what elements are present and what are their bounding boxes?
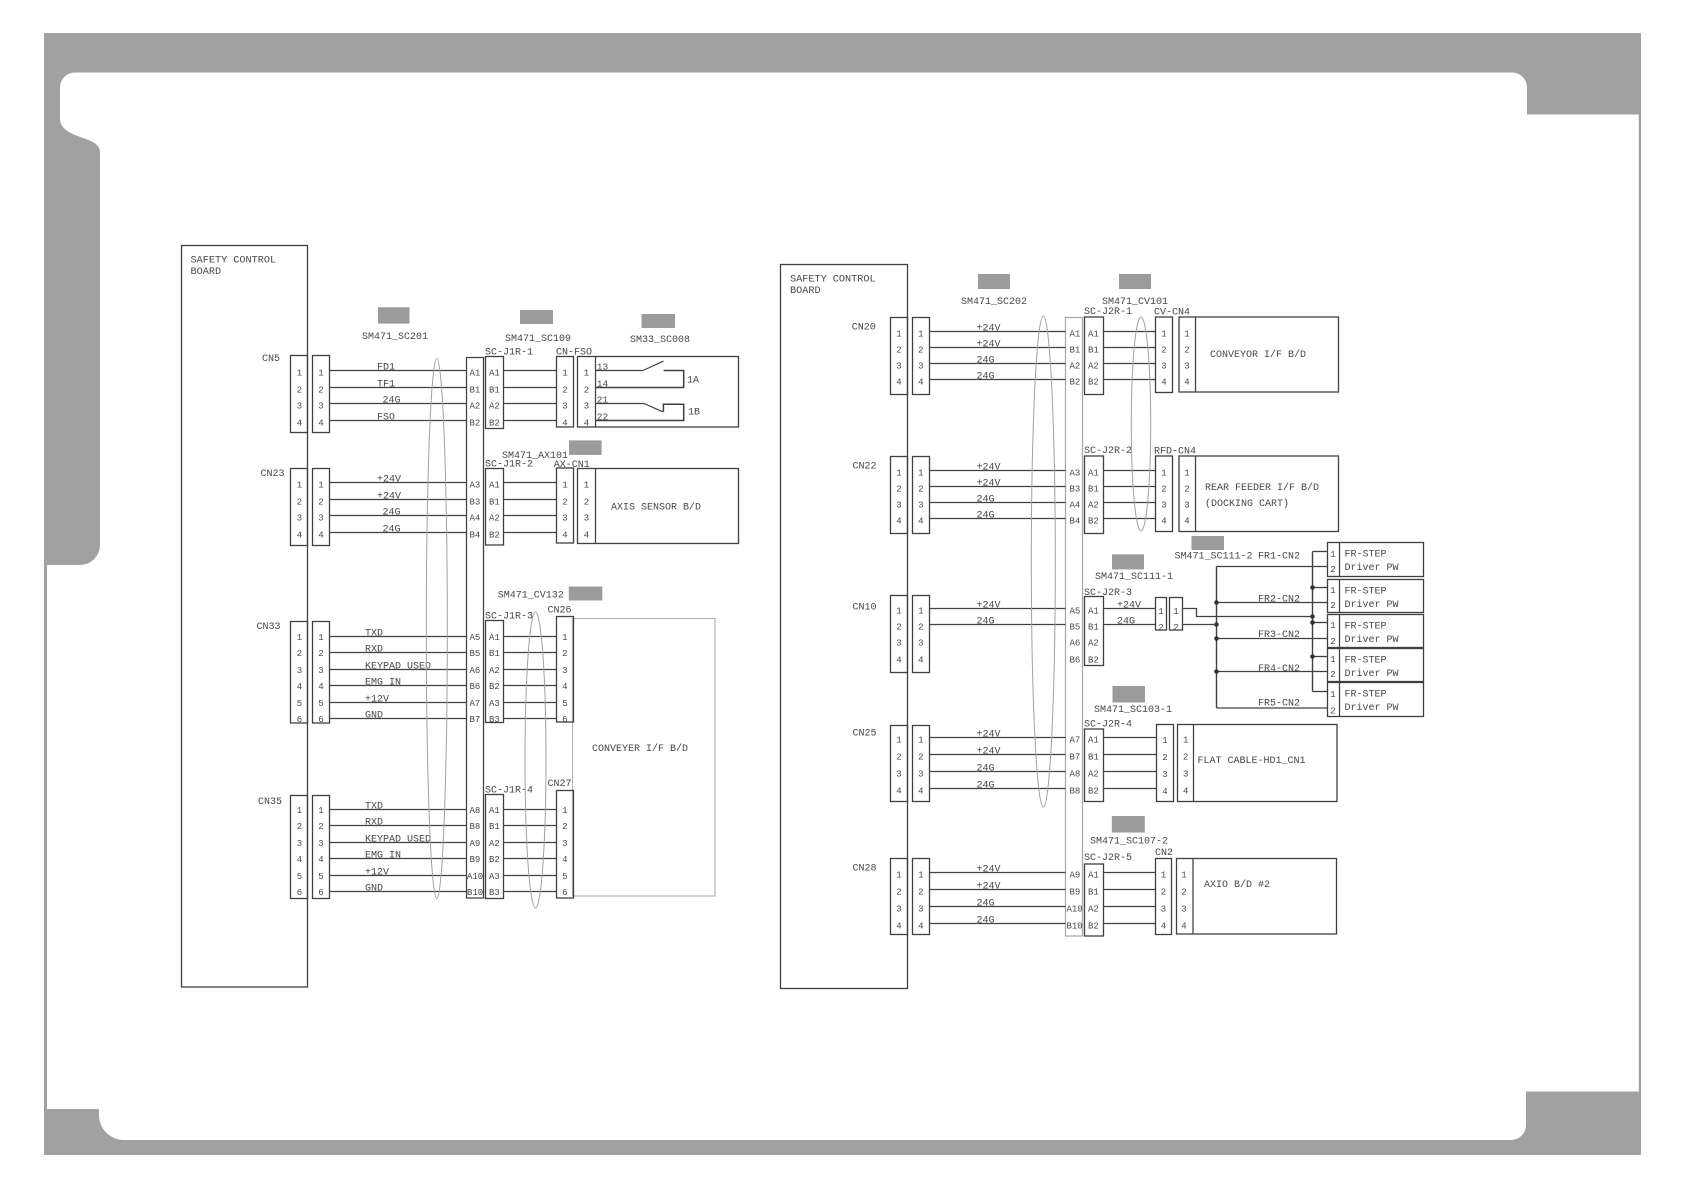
svg-text:A1: A1 xyxy=(1088,871,1099,881)
svg-text:1: 1 xyxy=(1330,621,1335,631)
svg-text:A2: A2 xyxy=(489,402,500,412)
wire SC-J1R-4 A2 to CN27 pin 3 xyxy=(504,842,557,844)
2-pin connector (left) for FR-STEP feed xyxy=(1156,598,1167,631)
FR2 pin column divider xyxy=(1339,580,1341,613)
connector CN27 xyxy=(557,791,574,899)
svg-text:1: 1 xyxy=(562,369,567,379)
connector CN20 (board side) xyxy=(891,318,908,395)
svg-text:SM471_CV101: SM471_CV101 xyxy=(1102,297,1168,308)
svg-text:SC-J1R-1: SC-J1R-1 xyxy=(485,348,533,359)
svg-text:Driver PW: Driver PW xyxy=(1345,562,1399,574)
svg-text:SC-J2R-1: SC-J2R-1 xyxy=(1084,307,1132,318)
svg-text:SC-J1R-4: SC-J1R-4 xyxy=(485,786,533,797)
svg-text:2: 2 xyxy=(1330,601,1335,611)
svg-text:4: 4 xyxy=(318,855,323,865)
svg-text:4: 4 xyxy=(297,855,302,865)
gray tag box for SM33_SC008 xyxy=(642,314,676,328)
svg-text:B3: B3 xyxy=(1070,485,1081,495)
svg-text:TXD: TXD xyxy=(365,629,383,640)
relay contact 1B wire 21 xyxy=(596,403,645,405)
svg-text:1: 1 xyxy=(896,736,901,746)
svg-text:SC-J2R-4: SC-J2R-4 xyxy=(1084,720,1132,731)
svg-text:A2: A2 xyxy=(489,839,500,849)
board AXIO B/D #2 xyxy=(1177,859,1337,935)
cable loop ellipse (left cable SM471_SC201/SC109) xyxy=(426,359,447,899)
svg-text:3: 3 xyxy=(896,770,901,780)
svg-text:+24V: +24V xyxy=(977,747,1001,758)
svg-text:A10: A10 xyxy=(467,872,483,882)
svg-text:2: 2 xyxy=(1183,753,1188,763)
svg-text:2: 2 xyxy=(918,623,923,633)
svg-text:A1: A1 xyxy=(1088,607,1099,617)
svg-text:6: 6 xyxy=(562,715,567,725)
svg-text:6: 6 xyxy=(297,888,302,898)
wire CN25 pin 2 net +24V xyxy=(930,754,1066,756)
wire 24G bus to FR2 pin 2 xyxy=(1217,602,1328,604)
svg-text:2: 2 xyxy=(918,485,923,495)
wire CN35 pin 4 net EMG_IN xyxy=(330,858,467,860)
svg-text:A4: A4 xyxy=(1070,501,1081,511)
connector CN-FSO xyxy=(557,357,574,428)
svg-text:1: 1 xyxy=(1330,586,1335,596)
svg-text:A9: A9 xyxy=(1070,871,1081,881)
svg-text:3: 3 xyxy=(896,905,901,915)
svg-text:4: 4 xyxy=(318,531,323,541)
connector SC-J2R-2 xyxy=(1085,456,1104,534)
svg-text:2: 2 xyxy=(1161,346,1166,356)
svg-text:CN33: CN33 xyxy=(257,622,281,633)
wire SC-J2R-2 pin to RFD-CN4 pin 2 xyxy=(1104,486,1156,488)
wire CN28 pin 1 net +24V xyxy=(930,872,1066,874)
svg-text:A6: A6 xyxy=(470,666,481,676)
svg-text:CN25: CN25 xyxy=(853,729,877,740)
svg-text:4: 4 xyxy=(562,682,567,692)
connector CN2 xyxy=(1156,859,1172,935)
connector AX-CN1 xyxy=(557,468,574,543)
svg-text:B6: B6 xyxy=(1070,656,1081,666)
wire CN23 pin 2 net +24V xyxy=(330,499,467,501)
relay contact 1A wire 13 xyxy=(596,370,644,372)
svg-text:SM471_SC107-2: SM471_SC107-2 xyxy=(1090,837,1168,848)
junction dot 24G bus at FR3 pin2 xyxy=(1214,636,1219,641)
svg-text:SM471_SC111-1: SM471_SC111-1 xyxy=(1095,572,1173,583)
wire SC-J1R-4 B1 to CN27 pin 2 xyxy=(504,825,557,827)
junction dot 24G bus at FR2 pin2 xyxy=(1214,600,1219,605)
FR1 pin column divider xyxy=(1339,543,1341,577)
junction dot +24V bus at FR3 pin1 xyxy=(1310,620,1315,625)
svg-text:B9: B9 xyxy=(470,855,481,865)
svg-text:24G: 24G xyxy=(977,495,995,506)
svg-text:3: 3 xyxy=(1183,770,1188,780)
svg-text:B7: B7 xyxy=(470,715,481,725)
svg-text:FD1: FD1 xyxy=(377,363,395,374)
svg-text:4: 4 xyxy=(562,531,567,541)
relay contact 1B fixed contact and return to 22 xyxy=(596,404,684,420)
wire SC-J2R-4 pin to FLAT CABLE pin 1 xyxy=(1104,737,1157,739)
svg-text:CN2: CN2 xyxy=(1155,848,1173,859)
wire CN28 pin 4 net 24G xyxy=(930,923,1066,925)
relay contact 1A blade xyxy=(643,361,664,370)
wire CN28 pin 3 net 24G xyxy=(930,906,1066,908)
svg-text:2: 2 xyxy=(1330,565,1335,575)
svg-text:1: 1 xyxy=(1184,330,1189,340)
svg-text:Driver PW: Driver PW xyxy=(1345,634,1399,646)
svg-text:SM471_SC201: SM471_SC201 xyxy=(362,332,428,343)
wire SC-J2R-5 pin to CN2 pin 2 xyxy=(1104,889,1156,891)
junction dot +24V bus at FR2 pin1 xyxy=(1310,585,1315,590)
svg-text:2: 2 xyxy=(1330,670,1335,680)
svg-text:3: 3 xyxy=(918,770,923,780)
connector SC-J1R long housing (left tall box) xyxy=(467,358,484,899)
svg-text:1: 1 xyxy=(562,481,567,491)
svg-text:A1: A1 xyxy=(470,369,481,379)
wire SC-J1R-4 B3 to CN27 pin 6 xyxy=(504,891,557,893)
svg-text:A2: A2 xyxy=(489,514,500,524)
svg-text:CN26: CN26 xyxy=(548,606,572,617)
svg-text:4: 4 xyxy=(918,378,923,388)
wire +24V bus to FR5 pin 1 xyxy=(1313,691,1328,693)
wire SC-J1R-3 B3 to CN26 pin 6 xyxy=(504,718,557,720)
svg-text:CONVEYOR I/F B/D: CONVEYOR I/F B/D xyxy=(1210,349,1306,361)
svg-text:2: 2 xyxy=(1330,707,1335,717)
svg-text:3: 3 xyxy=(1161,905,1166,915)
svg-text:B5: B5 xyxy=(470,649,481,659)
relay SM33_SC008 body xyxy=(578,357,739,428)
svg-text:3: 3 xyxy=(297,839,302,849)
svg-text:B1: B1 xyxy=(1088,888,1099,898)
gray tag box for SM471_SC111-1 cable xyxy=(1112,554,1144,569)
wire CN28 pin 2 net +24V xyxy=(930,889,1066,891)
wire CN20 pin 2 net +24V xyxy=(930,347,1066,349)
gray tag box for SM471_CV101 cable xyxy=(1119,274,1151,289)
connector SC-J2R-5 xyxy=(1085,864,1104,936)
svg-text:2: 2 xyxy=(297,822,302,832)
wire CN33 pin 2 net RXD xyxy=(330,652,467,654)
svg-text:6: 6 xyxy=(562,888,567,898)
svg-text:1: 1 xyxy=(1161,330,1166,340)
connector CN33 (cable side) xyxy=(313,622,330,724)
svg-text:5: 5 xyxy=(297,872,302,882)
svg-text:B2: B2 xyxy=(489,682,500,692)
svg-text:2: 2 xyxy=(1161,485,1166,495)
svg-text:KEYPAD USED: KEYPAD USED xyxy=(365,835,431,846)
svg-text:B10: B10 xyxy=(467,888,483,898)
wire +24V bus to FR1 pin 1 xyxy=(1313,551,1328,553)
svg-text:24G: 24G xyxy=(383,508,401,519)
svg-text:B1: B1 xyxy=(1088,753,1099,763)
svg-text:Driver PW: Driver PW xyxy=(1345,702,1399,714)
wire 24G bus to FR5 pin 2 xyxy=(1217,707,1328,709)
cable loop ellipse (left cable SM471_CV132) xyxy=(525,612,546,908)
wire +24V bus to FR4 pin 1 xyxy=(1313,656,1328,658)
svg-text:2: 2 xyxy=(318,822,323,832)
wire +24V feed from 2-pin connector to bus xyxy=(1183,609,1313,617)
svg-text:B1: B1 xyxy=(1088,623,1099,633)
svg-text:3: 3 xyxy=(562,514,567,524)
relay contact 1B blade xyxy=(644,404,663,412)
svg-text:A1: A1 xyxy=(489,633,500,643)
svg-text:A2: A2 xyxy=(1070,362,1081,372)
svg-text:SAFETY CONTROL: SAFETY CONTROL xyxy=(790,275,876,286)
connector (CN25 destination small box) xyxy=(1157,725,1174,802)
svg-text:4: 4 xyxy=(896,517,901,527)
svg-text:B2: B2 xyxy=(1088,378,1099,388)
svg-text:3: 3 xyxy=(318,839,323,849)
connector CN20 (cable side) xyxy=(913,318,930,395)
svg-text:4: 4 xyxy=(297,419,302,429)
wire SC-J1R-2 B2 to AX-CN1 pin 4 xyxy=(504,532,557,534)
svg-text:2: 2 xyxy=(1173,623,1178,633)
wire CN5 pin 1 net FD1 xyxy=(330,370,467,372)
svg-text:B2: B2 xyxy=(1088,922,1099,932)
svg-text:24G: 24G xyxy=(977,617,995,628)
svg-text:3: 3 xyxy=(1181,905,1186,915)
wire SC-J1R-1 B2 to CN-FSO pin 4 xyxy=(504,420,557,422)
svg-text:A8: A8 xyxy=(470,806,481,816)
svg-text:2: 2 xyxy=(896,888,901,898)
svg-text:B2: B2 xyxy=(1088,517,1099,527)
svg-text:+24V: +24V xyxy=(377,492,401,503)
svg-text:SC-J2R-2: SC-J2R-2 xyxy=(1084,446,1132,457)
svg-text:4: 4 xyxy=(896,787,901,797)
svg-text:CN23: CN23 xyxy=(261,469,285,480)
svg-text:FSO: FSO xyxy=(377,413,395,424)
svg-text:B4: B4 xyxy=(470,531,481,541)
svg-text:4: 4 xyxy=(562,419,567,429)
svg-text:1: 1 xyxy=(1181,871,1186,881)
svg-text:+24V: +24V xyxy=(1117,601,1141,612)
svg-text:1: 1 xyxy=(918,469,923,479)
wire SC-J2R-4 pin to FLAT CABLE pin 3 xyxy=(1104,771,1157,773)
wire SC-J2R-3 B1 24G to 2-pin connector xyxy=(1104,624,1156,626)
FR-STEP Driver PW box FR2 xyxy=(1328,580,1424,613)
svg-text:4: 4 xyxy=(318,682,323,692)
svg-text:2: 2 xyxy=(918,346,923,356)
svg-text:B3: B3 xyxy=(489,715,500,725)
svg-text:EMG_IN: EMG_IN xyxy=(365,678,401,689)
AXIO B/D pin column divider xyxy=(1192,859,1194,935)
svg-text:A2: A2 xyxy=(470,402,481,412)
wire SC-J1R-3 A3 to CN26 pin 5 xyxy=(504,702,557,704)
wire SC-J1R-4 A3 to CN27 pin 5 xyxy=(504,875,557,877)
FR-STEP Driver PW box FR4 xyxy=(1328,649,1424,682)
wire CN5 pin 2 net TF1 xyxy=(330,387,467,389)
svg-text:4: 4 xyxy=(918,517,923,527)
board REAR FEEDER I/F B/D (DOCKING CART) xyxy=(1179,456,1339,532)
board: SAFETY CONTROL BOARD (right) xyxy=(781,265,908,989)
svg-text:5: 5 xyxy=(562,872,567,882)
wire SC-J2R-2 pin to RFD-CN4 pin 3 xyxy=(1104,502,1156,504)
svg-text:4: 4 xyxy=(918,656,923,666)
wire CN22 pin 1 net +24V xyxy=(930,470,1066,472)
svg-text:1: 1 xyxy=(318,806,323,816)
svg-text:2: 2 xyxy=(896,623,901,633)
wire 24G bus to FR3 pin 2 xyxy=(1217,638,1328,640)
wire SC-J2R-2 pin to RFD-CN4 pin 1 xyxy=(1104,470,1156,472)
FR4 pin column divider xyxy=(1339,649,1341,682)
wire SC-J1R-4 B2 to CN27 pin 4 xyxy=(504,858,557,860)
wire CN35 pin 2 net RXD xyxy=(330,825,467,827)
wire SC-J2R-2 pin to RFD-CN4 pin 4 xyxy=(1104,518,1156,520)
svg-text:SC-J2R-3: SC-J2R-3 xyxy=(1084,588,1132,599)
svg-text:1: 1 xyxy=(918,871,923,881)
wire +24V bus to FR2 pin 1 xyxy=(1313,587,1328,589)
svg-text:4: 4 xyxy=(1181,922,1186,932)
svg-text:BOARD: BOARD xyxy=(191,267,222,278)
svg-text:FR-STEP: FR-STEP xyxy=(1345,621,1387,632)
connector SC-J1R-4 xyxy=(486,795,504,899)
board CONVEYER I/F B/D (left) xyxy=(573,619,716,897)
svg-text:A5: A5 xyxy=(1070,607,1081,617)
svg-text:1: 1 xyxy=(1330,690,1335,700)
junction dot +24V bus at FR4 pin1 xyxy=(1310,654,1315,659)
svg-text:3: 3 xyxy=(1162,770,1167,780)
svg-text:1: 1 xyxy=(1162,736,1167,746)
svg-text:+24V: +24V xyxy=(977,730,1001,741)
svg-text:B3: B3 xyxy=(489,888,500,898)
svg-text:3: 3 xyxy=(297,666,302,676)
wire CN33 pin 1 net TXD xyxy=(330,636,467,638)
svg-text:SM471_SC202: SM471_SC202 xyxy=(961,297,1027,308)
svg-text:4: 4 xyxy=(918,787,923,797)
svg-text:24G: 24G xyxy=(977,899,995,910)
svg-text:2: 2 xyxy=(1184,346,1189,356)
svg-text:B2: B2 xyxy=(1088,787,1099,797)
svg-text:A3: A3 xyxy=(489,699,500,709)
junction dot 24G bus at feed xyxy=(1214,622,1219,627)
svg-text:3: 3 xyxy=(918,639,923,649)
wire SC-J1R-3 A1 to CN26 pin 1 xyxy=(504,636,557,638)
svg-text:1: 1 xyxy=(584,481,589,491)
svg-text:A3: A3 xyxy=(470,481,481,491)
wire CN20 pin 4 net 24G xyxy=(930,379,1066,381)
svg-text:FR3-CN2: FR3-CN2 xyxy=(1258,630,1300,641)
wire CN35 pin 6 net GND xyxy=(330,891,467,893)
svg-text:A10: A10 xyxy=(1067,905,1083,915)
wire CN35 pin 5 net +12V xyxy=(330,875,467,877)
svg-text:3: 3 xyxy=(918,501,923,511)
svg-text:+24V: +24V xyxy=(377,475,401,486)
connector CN33 (board side) xyxy=(291,622,308,724)
wire SC-J2R-5 pin to CN2 pin 3 xyxy=(1104,906,1156,908)
AXIS SENSOR B/D pin column divider xyxy=(595,469,597,544)
wire CN33 pin 6 net GND xyxy=(330,718,467,720)
wire CN22 pin 4 net 24G xyxy=(930,518,1066,520)
svg-text:4: 4 xyxy=(1162,787,1167,797)
REAR FEEDER pin column divider xyxy=(1195,456,1197,532)
svg-text:1A: 1A xyxy=(687,376,699,387)
svg-text:1B: 1B xyxy=(688,408,700,419)
svg-text:RXD: RXD xyxy=(365,645,383,656)
svg-text:3: 3 xyxy=(1161,362,1166,372)
svg-text:+24V: +24V xyxy=(977,324,1001,335)
svg-text:3: 3 xyxy=(896,362,901,372)
svg-text:2: 2 xyxy=(318,386,323,396)
svg-text:4: 4 xyxy=(1161,922,1166,932)
connector CN28 (board side) xyxy=(891,859,908,935)
connector SC-J2R-3 xyxy=(1085,597,1104,666)
svg-text:3: 3 xyxy=(584,402,589,412)
svg-text:FR4-CN2: FR4-CN2 xyxy=(1258,664,1300,675)
svg-text:CONVEYER I/F B/D: CONVEYER I/F B/D xyxy=(592,743,688,755)
connector CN10 (cable side) xyxy=(913,596,930,673)
svg-text:2: 2 xyxy=(318,649,323,659)
svg-text:B5: B5 xyxy=(1070,623,1081,633)
svg-text:1: 1 xyxy=(896,469,901,479)
svg-text:B7: B7 xyxy=(1070,753,1081,763)
connector CN25 (board side) xyxy=(891,726,908,802)
wire CN33 pin 3 net KEYPAD USED xyxy=(330,669,467,671)
connector SC-J1R-2 xyxy=(486,469,504,546)
wire SC-J2R-1 pin to CV-CN4 pin 4 xyxy=(1104,379,1156,381)
wire CN20 pin 3 net 24G xyxy=(930,363,1066,365)
gray tag box for SM471_CV132 xyxy=(569,587,603,601)
svg-text:1: 1 xyxy=(297,806,302,816)
svg-text:3: 3 xyxy=(896,639,901,649)
connector CN5 (board side) xyxy=(291,356,308,433)
connector SC-J2R long housing (right tall box) xyxy=(1066,318,1083,937)
svg-text:B1: B1 xyxy=(489,822,500,832)
svg-text:1: 1 xyxy=(896,607,901,617)
svg-text:5: 5 xyxy=(318,872,323,882)
svg-text:3: 3 xyxy=(297,402,302,412)
svg-text:B2: B2 xyxy=(1088,656,1099,666)
svg-text:1: 1 xyxy=(297,369,302,379)
svg-text:CN27: CN27 xyxy=(548,779,572,790)
svg-text:A6: A6 xyxy=(1070,639,1081,649)
+24V bus vertical wire (to FR pin 1s) xyxy=(1312,552,1314,692)
svg-text:A3: A3 xyxy=(489,872,500,882)
svg-text:B2: B2 xyxy=(489,855,500,865)
svg-text:A2: A2 xyxy=(489,666,500,676)
connector RFD-CN4 xyxy=(1156,456,1173,532)
svg-text:2: 2 xyxy=(918,888,923,898)
wire 24G feed from 2-pin connector to bus xyxy=(1183,624,1217,626)
svg-text:1: 1 xyxy=(918,330,923,340)
svg-text:3: 3 xyxy=(562,402,567,412)
svg-text:B10: B10 xyxy=(1067,922,1083,932)
wire 24G bus to FR4 pin 2 xyxy=(1217,671,1328,673)
svg-text:FR-STEP: FR-STEP xyxy=(1345,549,1387,560)
svg-text:A5: A5 xyxy=(470,633,481,643)
svg-text:A1: A1 xyxy=(1088,469,1099,479)
connector CN10 (board side) xyxy=(891,596,908,673)
svg-text:5: 5 xyxy=(562,699,567,709)
svg-text:2: 2 xyxy=(562,386,567,396)
svg-text:2: 2 xyxy=(562,822,567,832)
svg-text:5: 5 xyxy=(318,699,323,709)
wire SC-J2R-1 pin to CV-CN4 pin 2 xyxy=(1104,347,1156,349)
wire CN33 pin 5 net +12V xyxy=(330,702,467,704)
wire CN22 pin 2 net +24V xyxy=(930,486,1066,488)
wire +24V bus to FR3 pin 1 xyxy=(1313,622,1328,624)
svg-text:1: 1 xyxy=(318,369,323,379)
svg-text:2: 2 xyxy=(1162,753,1167,763)
svg-text:CN22: CN22 xyxy=(853,462,877,473)
svg-text:3: 3 xyxy=(562,839,567,849)
svg-text:B1: B1 xyxy=(489,649,500,659)
FR-STEP Driver PW box FR3 xyxy=(1328,615,1424,648)
svg-text:B2: B2 xyxy=(489,419,500,429)
FLAT CABLE pin column divider xyxy=(1193,725,1195,802)
svg-text:2: 2 xyxy=(896,485,901,495)
svg-text:B4: B4 xyxy=(1070,517,1081,527)
wire SC-J1R-2 A1 to AX-CN1 pin 1 xyxy=(504,482,557,484)
svg-text:A7: A7 xyxy=(470,699,481,709)
svg-text:AXIS SENSOR B/D: AXIS SENSOR B/D xyxy=(611,502,701,514)
wire SC-J2R-3 A1 +24V to 2-pin connector xyxy=(1104,608,1156,610)
svg-text:2: 2 xyxy=(584,386,589,396)
